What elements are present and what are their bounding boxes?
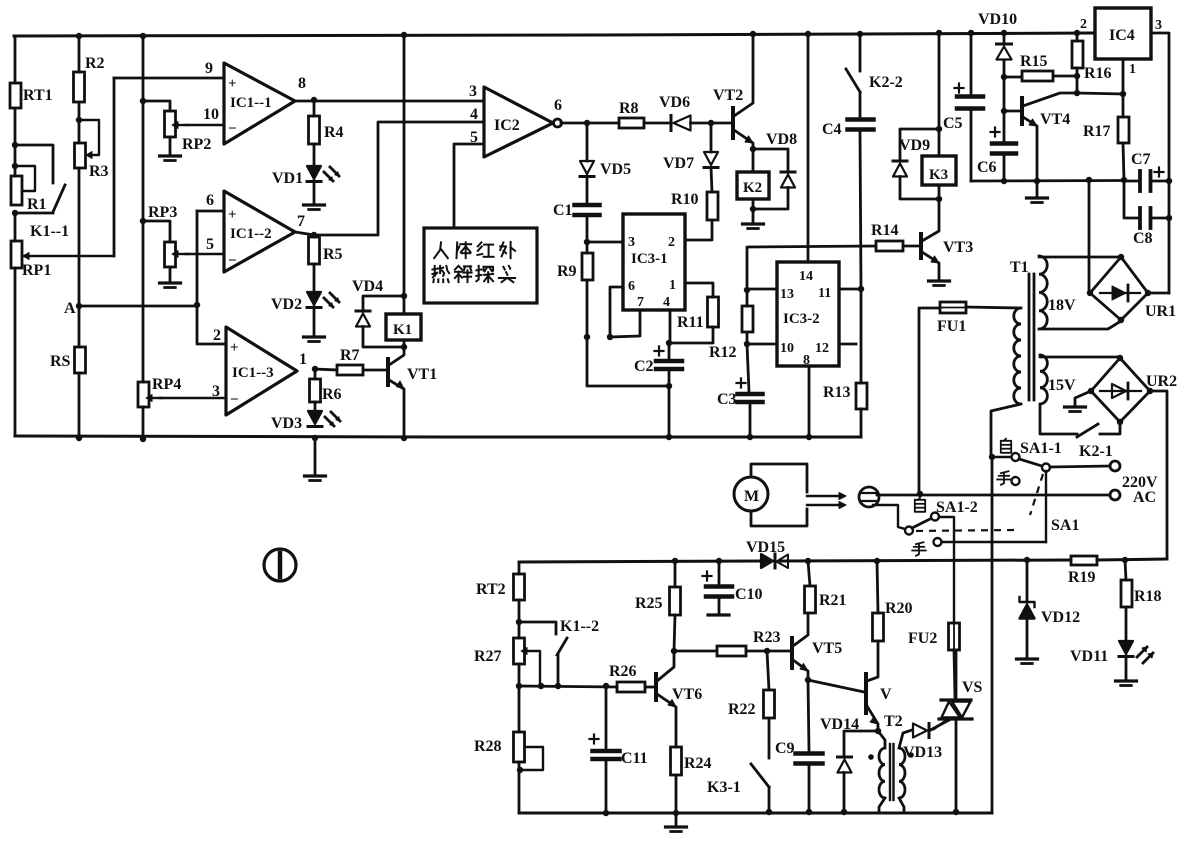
motor M [734,464,807,526]
transistor VT4 [1001,77,1077,181]
wire motor lead arrows [807,493,846,509]
svg-text:R25: R25 [635,595,663,612]
node R1 bottom [12,210,18,216]
resistor R2 [74,36,105,102]
wire bias riser x143 [140,36,146,382]
relay coil K2 [737,149,769,199]
ground below VT4 emitter [1027,181,1048,203]
svg-text:1: 1 [299,351,307,368]
ground below VD12 [1017,659,1038,664]
svg-text:IC4: IC4 [1109,27,1135,44]
wire upper ground rail [15,436,861,437]
wire +V to K1 [401,35,407,299]
wire pin7 to R9 node [610,310,640,337]
node rail x876 [874,558,880,564]
svg-text:C11: C11 [621,750,648,767]
svg-text:VD15: VD15 [746,539,785,556]
wire C1 node to pin3 [587,241,623,244]
resistor R11 [677,297,719,331]
wire R9 node to C2 bottom [587,337,672,389]
svg-text:R20: R20 [885,600,913,617]
node rail x675 [672,558,678,564]
capacitor C7 (+) [1124,151,1169,191]
capacitor C2 (+) [634,343,682,386]
resistor R10 [671,168,718,221]
terminal 220V line1 [1110,461,1120,471]
transformer T2 primary [878,731,885,812]
svg-text:IC1--1: IC1--1 [230,95,272,111]
resistor R23 [717,629,781,656]
node junction top rail x939 [936,30,942,36]
node K3 bottom [936,185,942,202]
resistor R17 [1083,94,1129,180]
inverter IC2 [484,87,562,157]
svg-text:VD14: VD14 [820,716,859,733]
transistor VT3 [921,199,973,279]
node T1 primary return [989,454,995,460]
svg-text:R17: R17 [1083,123,1111,140]
wire VS to bottom rail [930,719,960,815]
polarity dot T2 left [868,754,874,760]
wire FU2 to VS [954,650,955,697]
svg-text:R6: R6 [322,386,342,403]
wire R7 to VT1 base [363,369,387,372]
transformer T1 primary [966,307,1021,455]
svg-text:VT2: VT2 [713,87,743,104]
node junction top rail x404 [401,32,407,38]
wire SA1-2 auto to FU2 [939,517,954,623]
svg-text:IC1--2: IC1--2 [230,226,272,242]
resistor R22 [728,651,775,718]
wire RP2 wiper to pin10 [186,124,224,126]
wire RP4 to bottom rail [140,407,146,442]
svg-text:IC3-2: IC3-2 [783,311,820,327]
op-amp IC1-1 [224,63,295,144]
fuse FU1 [937,302,966,335]
node VT1 collector [401,344,407,350]
svg-text:R24: R24 [684,755,712,772]
svg-text:2: 2 [213,327,221,344]
svg-text:VD5: VD5 [600,161,631,178]
wire R12 to pin10 [744,332,777,347]
ground below VT3 [929,281,950,286]
mechanical link SA1 dashed [910,474,1079,534]
svg-text:14: 14 [799,269,813,284]
triac VS [939,650,983,719]
relay coil K3 [922,156,956,185]
resistor R3 (pot) [75,120,109,180]
potentiometer RP3 [143,204,188,267]
svg-text:A: A [64,300,76,317]
svg-text:RP2: RP2 [182,136,211,153]
pin 3 label [212,383,220,400]
wire pin4 to C2 top [666,310,672,346]
node rail x719 [716,558,722,564]
svg-text:RP1: RP1 [22,262,51,279]
svg-text:VD11: VD11 [1070,648,1108,665]
bridge rectifier UR2 [1088,355,1177,425]
svg-text:K1--1: K1--1 [30,223,69,240]
wire pin1 to R11 [685,283,713,297]
pin 9 label [205,60,213,77]
wire mains rail y560 [519,559,1166,562]
op-amp IC1-2 [224,191,295,272]
motor terminal circle [859,487,879,507]
svg-text:6: 6 [628,279,635,294]
svg-text:R15: R15 [1020,53,1048,70]
resistor R8 [619,100,644,128]
node A [64,300,82,317]
transistor VT5 [792,613,842,680]
ground below rail at VD3 [305,438,326,481]
capacitor C11 (+) [590,686,648,816]
fuse FU2 [908,623,960,650]
svg-text:K3-1: K3-1 [707,779,741,796]
transistor VT6 [656,651,702,747]
node rail x1125 [1122,557,1128,563]
stub pin12 [839,343,856,346]
node IC1-2 output [311,232,317,238]
ground below VD11 [1116,656,1137,686]
resistor R14 [871,222,903,251]
svg-text:−: − [228,253,237,269]
svg-text:R7: R7 [340,347,360,364]
svg-text:SA1: SA1 [1051,517,1079,534]
capacitor C1 [553,176,600,219]
ground below K2 [743,209,764,229]
svg-text:VD1: VD1 [272,170,303,187]
thermistor RT1 [10,83,53,108]
svg-text:K2: K2 [743,180,762,196]
ground below VD1 [304,181,325,210]
node V emitter [875,728,881,734]
LED VD3 [271,402,340,432]
capacitor C8 [1124,180,1169,247]
wire UR2 top input [1118,357,1120,358]
resistor R9 [557,242,593,280]
svg-text:K1--2: K1--2 [560,618,599,635]
svg-text:−: − [228,121,237,137]
svg-text:R18: R18 [1134,588,1162,605]
svg-text:K3: K3 [929,167,948,183]
wire UR1 minus to ground bus [1088,180,1091,293]
wire RP1 to bottom rail [14,268,17,436]
transformer T2 core [884,713,903,800]
svg-text:R12: R12 [709,344,737,361]
svg-text:T2: T2 [884,713,903,730]
svg-text:R8: R8 [619,100,639,117]
svg-text:SA1-2: SA1-2 [936,499,978,516]
svg-text:UR1: UR1 [1145,303,1176,320]
node VD10 bottom [1001,74,1007,80]
wire C3 to rail [747,404,753,440]
node K2 bottom [750,199,756,212]
IC IC3-1 [623,214,685,310]
wire pin2 input [197,306,226,344]
svg-text:R27: R27 [474,648,502,665]
svg-text:R9: R9 [557,263,577,280]
svg-text:3: 3 [1155,18,1162,33]
svg-text:VS: VS [962,679,983,696]
svg-text:RT2: RT2 [476,581,506,598]
wire +V to K3 [936,33,942,156]
svg-text:6: 6 [206,192,214,209]
switch K1-1 [15,145,69,240]
wire VD6 to VT2 base [691,120,734,126]
node junction top rail x971 [968,30,974,36]
node rail x1027 [1024,557,1030,563]
wire IC4 pin3 to output [1151,33,1172,293]
svg-text:R3: R3 [89,163,109,180]
wire pin6 to R9 node [607,287,623,340]
svg-text:K1: K1 [393,322,412,338]
svg-text:SA1-1: SA1-1 [1020,440,1062,457]
resistor R26 [609,663,645,692]
IC IC3-2 [777,262,839,368]
wire FU1 to AC node [919,308,940,493]
svg-text:K2-2: K2-2 [869,74,903,91]
svg-text:IC2: IC2 [494,117,520,134]
wire pin8 to rail [806,366,812,440]
svg-text:C10: C10 [735,586,763,603]
corner rail to UR2 [1166,558,1167,561]
svg-text:3: 3 [628,235,635,250]
svg-text:15V: 15V [1048,377,1076,394]
diode VD7 [663,123,718,172]
switch K3-1 [707,718,772,815]
wire pin13 [747,288,777,291]
wire SA1-1 to 220V terminal [1050,466,1110,467]
figure number circled 1 [264,549,296,581]
svg-text:1: 1 [1129,62,1136,77]
wire neutral down to bottom rail [991,457,994,813]
svg-text:VD6: VD6 [659,94,690,111]
wire R9 bottom node [584,280,590,340]
resistor R6 [310,369,342,403]
node junction top rail x753 [750,31,756,37]
svg-text:R23: R23 [753,629,781,646]
svg-text:R4: R4 [324,124,344,141]
switch SA1-1 [992,439,1062,485]
wire ground bus y181 [971,177,1127,184]
svg-text:VD10: VD10 [978,11,1017,28]
resistor R20 [873,561,913,641]
op-amp IC1-3 [226,327,297,415]
resistor R19 inline [1068,556,1097,586]
wire RP3 wiper to pin5 [186,253,224,255]
node VT5 emitter [805,677,811,683]
wire top +V rail [14,33,1095,36]
svg-text:2: 2 [1080,17,1087,32]
svg-text:C5: C5 [943,115,963,132]
wire VT5 emitter to V base [808,680,864,692]
LED VD2 [271,264,339,313]
diode VD15 [746,539,788,568]
node VD3 bottom rail [312,435,318,441]
svg-text:C2: C2 [634,358,654,375]
wire R8 to VD6 [644,122,670,125]
wire R14 feed [744,246,876,293]
wire K1 bottom to VT1 [403,340,406,347]
svg-text:1: 1 [669,278,676,293]
IC IC4 regulator [1080,8,1162,77]
wire IC2 out [561,120,619,126]
wire R23 bus [674,650,717,653]
svg-text:8: 8 [298,75,306,92]
diode VD9 [893,129,939,199]
svg-text:R10: R10 [671,191,699,208]
resistor R15 [1004,53,1077,81]
wire IC2 pin5 to sensor [454,144,484,228]
svg-text:4: 4 [663,295,670,310]
wire SA1-1 pivot down [1045,471,1047,542]
svg-text:IC3-1: IC3-1 [631,251,668,267]
capacitor C3 (+) [717,344,763,408]
pin 2 label [213,327,221,344]
svg-text:C8: C8 [1133,230,1153,247]
switch K1-2 [519,618,599,686]
wire C1 to R9 node [584,217,590,245]
svg-text:12: 12 [815,341,829,356]
node junction top rail x808 [805,31,811,37]
ground below RP3 [160,267,181,288]
resistor RS [50,347,86,373]
transistor V thyristor driver [866,641,892,731]
wire IC4 pin1 [1077,59,1126,97]
svg-text:10: 10 [780,341,794,356]
transistor VT1 [388,347,437,438]
wire AC neutral [877,491,1110,497]
thermistor RT2 [476,562,525,625]
resistor R13 [823,289,867,437]
pin 4 label IC2 [470,106,478,123]
svg-text:R2: R2 [85,55,105,72]
bridge rectifier UR1 [1087,254,1176,323]
svg-text:FU2: FU2 [908,630,937,647]
node junction top rail x79 [76,33,82,39]
svg-text:T1: T1 [1010,259,1029,276]
wire UR1 plus to pin3 line [1148,292,1169,295]
svg-text:R14: R14 [871,222,899,239]
node junction top rail x1077 [1074,30,1080,36]
pin 6 label IC2 [554,97,562,114]
resistor R7 [315,347,363,375]
label 220V AC [1122,474,1158,506]
diode VD4 [352,278,404,347]
transformer T2 secondary [899,730,912,812]
switch K2-1 [1077,422,1120,460]
svg-text:3: 3 [469,83,477,100]
svg-text:VT6: VT6 [672,686,702,703]
svg-text:3: 3 [212,383,220,400]
svg-text:4: 4 [470,106,478,123]
svg-text:VT5: VT5 [812,640,842,657]
wire left supply rail (top) [14,36,17,83]
svg-text:+: + [228,207,237,223]
svg-text:C4: C4 [822,121,842,138]
sensor box 人体红外热释探头 [424,228,537,303]
svg-text:VT1: VT1 [407,366,437,383]
ground below RP2 [160,137,181,161]
svg-text:UR2: UR2 [1146,373,1177,390]
transformer T1 15V secondary [1040,355,1118,434]
resistor R5 [309,235,343,264]
svg-text:2: 2 [668,235,675,250]
svg-text:VD4: VD4 [352,278,383,295]
wire VT6 base bus [516,683,617,689]
svg-text:10: 10 [203,106,219,123]
pin 1 label [299,351,307,368]
svg-text:R26: R26 [609,663,637,680]
svg-text:+: + [228,76,237,92]
wire C2 node to rail [666,386,672,440]
switch K2-2 [846,34,903,92]
resistor R12 [709,290,753,361]
svg-text:VT3: VT3 [943,239,973,256]
wire IC1-1 out to IC2 pin3 [295,100,484,103]
svg-text:+: + [230,340,239,356]
switch SA1-2 [905,498,978,556]
node VT1 emitter rail [401,435,407,441]
resistor R27 (pot) [474,622,540,686]
zener diode VD12 [1020,560,1081,657]
wire R23 to VT5 base [746,648,791,654]
svg-text:5: 5 [206,236,214,253]
svg-text:M: M [744,488,759,505]
potentiometer RP2 [143,101,211,153]
capacitor C4 [822,92,874,289]
svg-text:C7: C7 [1131,151,1151,168]
wire RS to bottom rail [76,373,82,441]
wire bottom rail y813 [519,812,992,815]
svg-text:K2-1: K2-1 [1079,443,1113,460]
transistor VT2 [713,34,753,149]
pin 3 label IC2 [469,83,477,100]
svg-text:9: 9 [205,60,213,77]
wire R26 to VT6 [645,686,655,689]
node R2 bottom [76,102,82,143]
wire IC4 pin2 [1077,32,1095,35]
capacitor C6 (+) [977,111,1016,181]
wire motor to SA1-2 pivot [873,505,905,529]
polarity dot T2 right [908,752,914,758]
svg-text:R13: R13 [823,384,851,401]
node junction top rail x143 [140,33,146,39]
wire R3 to RS [78,168,81,347]
wire R11 to C2 top [669,327,713,343]
svg-text:C1: C1 [553,202,573,219]
potentiometer RP4 [138,376,181,407]
wire pin11 to C4 line [839,286,864,292]
ground at UR2 left [1065,391,1092,412]
diode VD10 [978,11,1017,77]
pin 8 label [298,75,306,92]
svg-text:V: V [880,686,892,703]
svg-text:IC1--3: IC1--3 [232,365,274,381]
svg-text:C6: C6 [977,159,997,176]
wire R28 to bottom rail [518,762,521,813]
diode VD6 [659,94,691,131]
node junction top rail x1004 [1001,30,1007,36]
svg-text:RS: RS [50,353,71,370]
wire RP4 wiper to pin3 [160,397,226,399]
transformer T1 core [1010,259,1034,400]
resistor R28 (pot) [474,664,543,773]
svg-text:−: − [230,392,239,408]
resistor R21 [805,561,847,613]
node junction top rail x860 [857,31,863,37]
wire node A to IC1 inputs [79,305,197,308]
